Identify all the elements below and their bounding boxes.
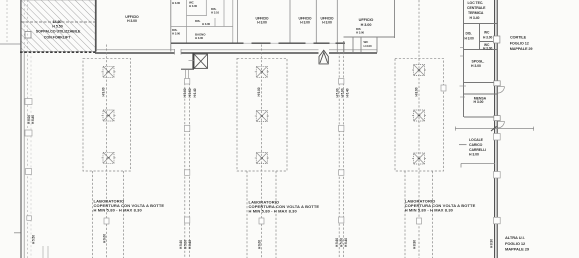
svg-text:CON FORKLIFT: CON FORKLIFT	[44, 36, 71, 40]
svg-text:H 6.40: H 6.40	[188, 240, 192, 249]
svg-text:H 5.00: H 5.00	[336, 88, 340, 97]
svg-text:H 3.00: H 3.00	[483, 46, 492, 50]
svg-text:H 3.00: H 3.00	[195, 36, 204, 40]
svg-text:SPOGL.: SPOGL.	[472, 60, 485, 64]
svg-text:H 3.00: H 3.00	[356, 30, 365, 34]
svg-text:H 6.40: H 6.40	[346, 88, 350, 97]
svg-text:H 3.00: H 3.00	[172, 1, 181, 5]
svg-text:H 5.00: H 5.00	[340, 238, 344, 247]
svg-text:H 5.60: H 5.60	[179, 240, 183, 249]
svg-text:H 3.00: H 3.00	[127, 19, 137, 23]
svg-text:ALTRA U.I.: ALTRA U.I.	[505, 235, 525, 240]
svg-text:H 8.90: H 8.90	[413, 240, 417, 249]
svg-text:H 9.00: H 9.00	[257, 87, 261, 96]
svg-text:H 8.90: H 8.90	[415, 87, 419, 96]
svg-text:UFFICIO: UFFICIO	[359, 18, 374, 22]
svg-text:CORTILE: CORTILE	[510, 36, 527, 40]
svg-text:TERMICA: TERMICA	[468, 11, 484, 15]
svg-text:H 5.50: H 5.50	[32, 235, 36, 244]
svg-text:H 3.00: H 3.00	[172, 31, 181, 35]
svg-text:CARICO: CARICO	[469, 143, 483, 147]
svg-text:FOGLIO 12: FOGLIO 12	[510, 41, 529, 45]
svg-text:H 5.00: H 5.00	[184, 240, 188, 249]
svg-text:H 3.00: H 3.00	[465, 37, 474, 41]
svg-text:MAPPALE 29: MAPPALE 29	[510, 47, 533, 51]
svg-text:H 9.00: H 9.00	[103, 234, 107, 243]
svg-text:H 3.40: H 3.40	[470, 16, 480, 20]
svg-text:SOPPALCO UTILIZZABILE: SOPPALCO UTILIZZABILE	[36, 30, 81, 34]
svg-text:CARRELLI: CARRELLI	[469, 148, 486, 152]
svg-text:H 3.10: H 3.10	[211, 11, 220, 15]
svg-text:H 5.00: H 5.00	[183, 88, 187, 97]
svg-text:H 6.40: H 6.40	[193, 88, 197, 97]
svg-text:H 5.60: H 5.60	[335, 238, 339, 247]
svg-text:H 3.00: H 3.00	[469, 153, 479, 157]
svg-text:DIS.: DIS.	[195, 19, 201, 23]
svg-text:MAPPALE 29: MAPPALE 29	[505, 247, 530, 252]
svg-text:H 3.00: H 3.00	[257, 21, 267, 25]
svg-text:14.30: 14.30	[53, 20, 62, 24]
svg-text:FOGLIO 12: FOGLIO 12	[505, 241, 526, 246]
svg-text:H 5.50: H 5.50	[52, 25, 62, 29]
svg-text:H 3.00: H 3.00	[322, 21, 332, 25]
svg-text:LOCALE: LOCALE	[469, 138, 484, 142]
svg-text:H MIN 5.80 - H MAX 8.30: H MIN 5.80 - H MAX 8.30	[94, 207, 143, 212]
svg-text:H 3.00: H 3.00	[300, 21, 310, 25]
svg-text:LOC TEC.: LOC TEC.	[468, 1, 484, 5]
svg-text:H 6.40: H 6.40	[344, 238, 348, 247]
svg-text:H 6.80: H 6.80	[31, 115, 35, 124]
svg-text:H 3.00: H 3.00	[202, 22, 211, 26]
svg-text:H 3.00: H 3.00	[474, 100, 484, 104]
svg-text:CENTRALE: CENTRALE	[467, 6, 486, 10]
svg-text:H MIN 5.80 - H MAX 8.30: H MIN 5.80 - H MAX 8.30	[405, 207, 454, 212]
svg-text:H 3.00: H 3.00	[471, 64, 481, 68]
svg-text:WC: WC	[484, 31, 490, 35]
svg-text:H 3.00: H 3.00	[483, 35, 492, 39]
svg-text:DIS.: DIS.	[466, 32, 472, 36]
svg-text:H 9.00: H 9.00	[258, 240, 262, 249]
svg-text:H 5.60: H 5.60	[188, 88, 192, 97]
svg-text:H 3.00: H 3.00	[361, 23, 372, 27]
svg-text:H 9.00: H 9.00	[101, 87, 105, 96]
svg-text:H MIN 5.80 - H MAX 8.30: H MIN 5.80 - H MAX 8.30	[249, 208, 298, 213]
svg-text:H 3.00: H 3.00	[189, 4, 198, 8]
svg-text:H 3.00: H 3.00	[364, 44, 373, 48]
svg-text:H 8.90: H 8.90	[490, 239, 494, 248]
svg-text:H 5.60: H 5.60	[341, 88, 345, 97]
